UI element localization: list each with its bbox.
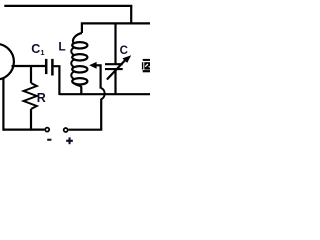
svg-text:C: C bbox=[120, 45, 128, 57]
svg-text:1: 1 bbox=[40, 48, 44, 57]
svg-text:L: L bbox=[58, 39, 65, 53]
svg-text:R: R bbox=[37, 91, 46, 105]
svg-text:C: C bbox=[31, 42, 40, 56]
